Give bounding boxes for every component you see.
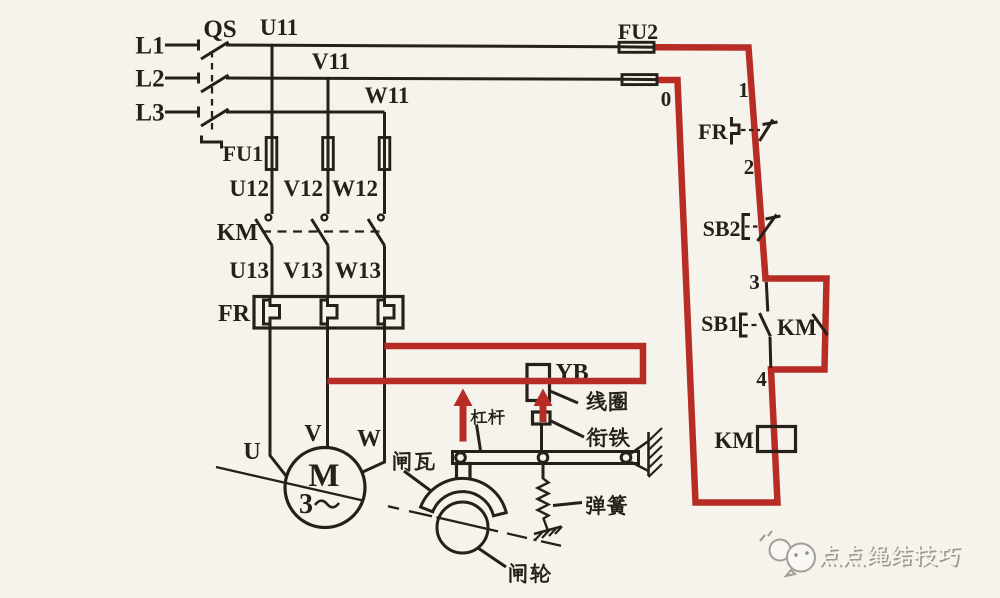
QS blade L2 bbox=[201, 75, 229, 92]
svg-text:2: 2 bbox=[744, 155, 755, 179]
wire W phase to motor bbox=[353, 328, 385, 477]
spring zigzag bbox=[538, 479, 549, 530]
KM main contact at x384.5 bbox=[378, 215, 384, 221]
svg-text:KM: KM bbox=[777, 315, 817, 340]
QS fixed contact L2 bbox=[197, 73, 200, 84]
QS linkage dashed bbox=[211, 51, 213, 135]
lever pivot right bbox=[621, 453, 631, 463]
wire below KM contact x272 bbox=[271, 246, 274, 297]
red highlight control loop bbox=[654, 47, 827, 502]
QS handle bbox=[202, 136, 222, 149]
svg-text:FR: FR bbox=[218, 301, 251, 327]
label line to 闸轮 bbox=[478, 548, 506, 567]
lever pivot left bbox=[456, 453, 466, 463]
brake wheel bbox=[437, 502, 488, 553]
svg-text:W11: W11 bbox=[365, 83, 410, 108]
svg-text:W12: W12 bbox=[332, 176, 378, 201]
brake coil YB box bbox=[527, 365, 550, 401]
SB2 seat tick bbox=[766, 216, 781, 219]
svg-text:L3: L3 bbox=[135, 100, 164, 127]
svg-text:V12: V12 bbox=[283, 176, 323, 201]
label 闸瓦 brake shoe bbox=[393, 451, 410, 471]
wall anchor bracket bbox=[631, 432, 649, 476]
svg-text:KM: KM bbox=[714, 428, 754, 453]
brake lever bar bbox=[453, 452, 639, 464]
fuse FU1 phase at x328 bbox=[323, 138, 334, 170]
svg-text:U12: U12 bbox=[229, 176, 269, 201]
KM aux blade bbox=[813, 314, 828, 335]
wire below KM contact x384.5 bbox=[383, 246, 386, 297]
wire L1 row to FU2 bbox=[226, 45, 619, 47]
svg-text:W13: W13 bbox=[335, 258, 381, 283]
label line to 弹簧 bbox=[553, 503, 582, 506]
red arrow lever side bbox=[454, 389, 473, 442]
wire V11 vertical bbox=[327, 79, 330, 215]
svg-text:1: 1 bbox=[738, 78, 749, 102]
wire W11 vertical bbox=[383, 112, 386, 214]
label 衔铁 armature bbox=[587, 427, 608, 447]
QS fixed contact L3 bbox=[197, 107, 200, 118]
svg-text:FR: FR bbox=[698, 119, 728, 144]
SB2 blade bbox=[758, 215, 777, 242]
fuse FU1 phase at x384.5 bbox=[379, 138, 390, 170]
armature block bbox=[533, 412, 551, 424]
wire U phase to motor bbox=[270, 328, 289, 479]
svg-text:L1: L1 bbox=[135, 33, 164, 60]
wire SB1 to node4 bbox=[769, 337, 773, 368]
wire inside FU2 fuse 1 bbox=[619, 45, 656, 49]
svg-text:FU1: FU1 bbox=[223, 141, 263, 166]
QS blade L1 bbox=[201, 42, 229, 59]
svg-text:L2: L2 bbox=[135, 66, 164, 93]
wire V phase to motor bbox=[326, 328, 329, 448]
label 线圈 coil bbox=[587, 391, 607, 411]
svg-text:W: W bbox=[357, 426, 381, 452]
wire L2 lead-in bbox=[165, 77, 198, 80]
fuse FU2 lower bbox=[622, 75, 657, 85]
svg-text:KM: KM bbox=[217, 220, 258, 246]
SB2 link dash bbox=[745, 225, 758, 227]
label 杠杆 lever bbox=[471, 409, 487, 425]
red highlight wire W-phase to YB to V-phase bbox=[328, 346, 644, 381]
motor M circle bbox=[285, 448, 365, 528]
brake shoe bbox=[421, 478, 507, 515]
FR heater element x384.5 bbox=[385, 297, 395, 329]
svg-text:3: 3 bbox=[749, 270, 760, 294]
SB2 cap bracket bbox=[743, 215, 750, 239]
KM main contact at x328 bbox=[322, 215, 328, 221]
FR NC contact dashes bbox=[741, 129, 760, 131]
watermark icon bubbles bbox=[760, 531, 815, 576]
wire L3 lead-in bbox=[165, 111, 198, 114]
label 弹簧 spring bbox=[586, 496, 605, 515]
coil KM box bbox=[758, 427, 796, 452]
FR NC contact blade bbox=[760, 120, 774, 142]
FR NC contact seat tick bbox=[763, 122, 778, 125]
label line to 线圈 bbox=[550, 391, 578, 403]
svg-text:V13: V13 bbox=[283, 258, 323, 283]
brake shoe link bbox=[457, 464, 471, 480]
watermark text 点点绳结技巧 bbox=[821, 546, 961, 567]
svg-text:V11: V11 bbox=[312, 49, 350, 74]
red arrow armature side bbox=[534, 389, 553, 423]
label 闸轮 brake wheel bbox=[509, 563, 526, 583]
wire armature to lever bbox=[540, 424, 543, 452]
FR NC contact bracket bbox=[732, 117, 740, 145]
wire inside FU2 fuse 2 bbox=[622, 78, 657, 81]
ground symbol under spring bbox=[534, 527, 562, 535]
svg-text:4: 4 bbox=[756, 367, 767, 391]
label line to 闸瓦 bbox=[404, 471, 431, 491]
svg-text:SB1: SB1 bbox=[701, 311, 739, 336]
spring rod bbox=[542, 464, 545, 480]
svg-text:SB2: SB2 bbox=[703, 216, 741, 241]
wire below KM contact x328 bbox=[327, 246, 330, 297]
SB1 link dash bbox=[743, 324, 758, 326]
wire node3 to SB1 bbox=[766, 282, 768, 312]
FR heater element x327.5 bbox=[328, 297, 338, 329]
label line to 衔铁 bbox=[551, 421, 584, 437]
svg-text:3: 3 bbox=[299, 489, 313, 520]
lever pivot middle bbox=[538, 453, 548, 463]
QS fixed contact L1 bbox=[197, 40, 200, 51]
KM main contact at x272 bbox=[266, 215, 272, 221]
svg-text:V: V bbox=[304, 421, 322, 447]
wire YB to armature bbox=[540, 401, 543, 413]
svg-text:FU2: FU2 bbox=[618, 19, 658, 44]
label line to 杠杆 bbox=[477, 425, 481, 451]
svg-text:0: 0 bbox=[661, 87, 672, 111]
fuse FU2 upper bbox=[619, 42, 654, 52]
svg-text:U11: U11 bbox=[260, 15, 298, 40]
SB1 blade bbox=[760, 313, 771, 337]
SB1 cap bracket bbox=[741, 314, 748, 336]
svg-text:U13: U13 bbox=[229, 258, 269, 283]
QS blade L3 bbox=[201, 109, 229, 126]
wire L3 row to W11 corner bbox=[226, 111, 385, 114]
relay FR box bbox=[254, 297, 403, 329]
wire U11 vertical bbox=[271, 46, 274, 215]
svg-text:QS: QS bbox=[203, 16, 236, 43]
wire L2 row to FU2 bbox=[226, 78, 622, 79]
fuse FU1 phase at x271.5 bbox=[266, 138, 277, 170]
FR heater element x270 bbox=[270, 297, 280, 329]
KM linkage dashed bbox=[262, 230, 380, 232]
shaft centerline dash-dot bbox=[216, 467, 561, 546]
wall hatching bbox=[649, 428, 663, 477]
wire L1 lead-in bbox=[165, 44, 198, 47]
svg-text:U: U bbox=[243, 439, 260, 465]
